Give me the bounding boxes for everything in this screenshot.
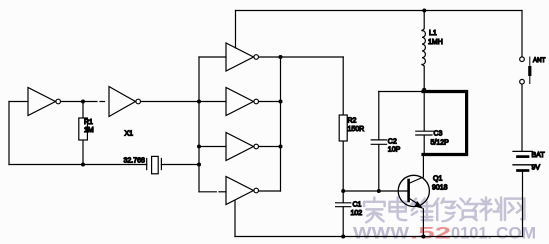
svg-text:WWW: WWW [353,224,410,243]
wire stub row2 [199,101,226,103]
svg-text:ANT: ANT [533,57,546,64]
svg-text:L1: L1 [429,30,437,37]
svg-text:C3: C3 [434,131,443,138]
capacitor C1 [336,203,351,237]
svg-text:150R: 150R [348,126,365,133]
inverter U1C [226,43,259,71]
wire bottom riser U1F [234,201,236,237]
capacitor C3 [416,92,434,155]
wire collector [422,155,424,178]
node C1 bottom [341,235,345,239]
node emitter bottom [421,235,425,239]
inverter U1A (oscillator) [28,88,61,116]
resistor R2 [339,57,347,203]
wire battery top [521,84,523,151]
node tank top [422,88,426,92]
svg-text:102: 102 [351,210,363,217]
inverter U1F [226,177,259,205]
node C2 bottom [377,189,381,193]
crystal X1 [147,156,162,173]
wire top rail [236,10,523,12]
wire U1F out [259,190,281,192]
svg-text:.52: .52 [410,224,451,243]
svg-text:C2: C2 [388,139,397,146]
wire base [343,190,407,192]
transistor Q1 [398,175,429,209]
svg-text:R2: R2 [348,118,357,125]
watermark url [353,224,536,243]
antenna jack upper terminal [520,57,525,62]
wire input bus [198,57,200,192]
wire stub row4 [199,191,216,193]
svg-text:R1: R1 [84,119,93,126]
resistor R1 [79,102,88,165]
svg-text:COM: COM [496,224,536,243]
wire U1E out [259,146,281,148]
inverter U1E [226,133,259,161]
char 网 [505,199,524,221]
node bus row2 [197,100,201,104]
coupling loop (thick) [423,92,467,155]
svg-text:9018: 9018 [432,185,448,192]
wire feedback left vertical [8,102,10,165]
wire stub row3 [199,146,226,148]
wire bottom rail [235,236,523,238]
inverter U1B (oscillator) [109,87,141,117]
wire U1C out [259,56,343,58]
svg-text:0101.: 0101. [451,224,492,243]
node base tee [341,189,345,193]
antenna rod [528,57,531,84]
wire stub row1 [199,56,226,58]
svg-text:X1: X1 [125,131,134,138]
node U1A out [81,100,85,104]
char 家 [364,198,385,223]
node bus row3 [197,145,201,149]
inductor L1 [422,11,425,92]
svg-text:9V: 9V [532,165,541,172]
node bus crystal [197,163,201,167]
antenna jack lower terminal [520,79,525,84]
svg-text:BAT: BAT [532,152,546,159]
node L1 top [422,9,426,13]
node out row2 [279,100,283,104]
char 资 [457,199,478,221]
inverter U1D [226,88,259,116]
char 维 [412,199,433,221]
node out row1 [279,55,283,59]
char 修 [434,199,455,222]
char 电 [390,198,407,221]
svg-text:32.768: 32.768 [124,158,146,165]
wire dash row4 [219,191,226,193]
wire U1B out [141,101,199,103]
node R1 bottom [81,163,85,167]
wire C2 top [379,91,424,93]
wire bottom feedback [9,164,147,166]
wire dash to U1B [100,101,105,103]
svg-text:C1: C1 [353,202,362,209]
wire output bus [280,57,282,191]
battery BAT [513,151,532,236]
wire antenna drop [521,11,523,57]
svg-text:1MH: 1MH [428,39,443,46]
svg-text:10P: 10P [388,147,401,154]
svg-text:5/12P: 5/12P [431,140,450,147]
capacitor C2 [371,92,386,192]
wire input U1A [9,101,28,103]
wire crystal to bus [161,164,199,166]
wire U1A out [61,101,97,103]
watermark [364,198,524,223]
char 料 [481,198,502,221]
svg-text:Q1: Q1 [433,176,442,183]
node out row3 [279,145,283,149]
wire top rail riser [235,11,237,49]
wire U1D out [259,101,281,103]
svg-text:1M: 1M [84,127,94,134]
wire emitter [422,209,424,237]
